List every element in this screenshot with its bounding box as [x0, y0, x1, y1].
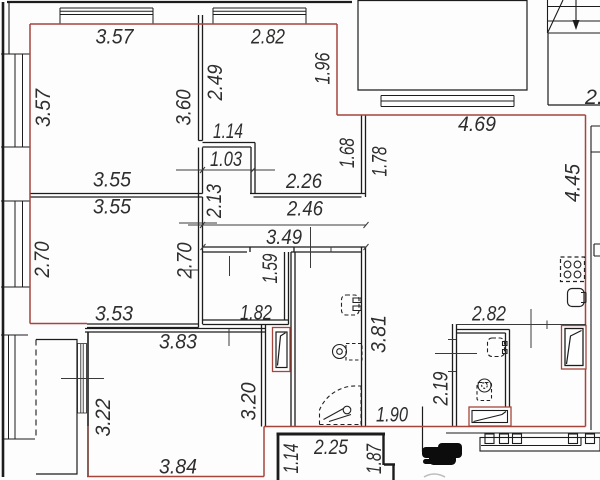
door D3: [562, 326, 587, 370]
door D2: [469, 407, 511, 426]
svg-text:2.19: 2.19: [429, 371, 453, 406]
window left 3: [1, 335, 35, 439]
svg-text:4.45: 4.45: [561, 163, 585, 202]
svg-text:2.13: 2.13: [202, 184, 226, 219]
svg-text:2.26: 2.26: [285, 169, 322, 193]
svg-text:3.60: 3.60: [172, 89, 196, 125]
svg-text:3.57: 3.57: [31, 88, 55, 127]
svg-text:3.55: 3.55: [93, 195, 132, 219]
svg-text:1.59: 1.59: [258, 253, 282, 283]
bathroom2 walls: [453, 324, 510, 427]
hall bottom post: [422, 407, 424, 453]
censor blob: [422, 443, 462, 465]
washbasin bathroom2: [488, 338, 505, 357]
svg-text:1.96: 1.96: [311, 52, 335, 84]
stairs: [548, 0, 600, 33]
wardrobe: [36, 340, 77, 475]
living room left wall: [87, 332, 89, 477]
dimension lines: [61, 167, 586, 379]
svg-text:3.49: 3.49: [266, 225, 302, 249]
fixtures: [320, 257, 587, 425]
svg-text:3.83: 3.83: [159, 330, 197, 354]
stove: [561, 257, 585, 282]
niche wall: [203, 143, 256, 194]
window top B: [213, 8, 306, 24]
svg-text:3.84: 3.84: [159, 455, 197, 479]
stair shaft wall: [548, 33, 600, 105]
window left 1: [1, 54, 30, 147]
kitchen sink: [568, 289, 585, 307]
svg-text:2.46: 2.46: [286, 197, 323, 221]
wall A bedroom1 right: [199, 15, 203, 194]
svg-text:2.70: 2.70: [173, 242, 197, 279]
svg-text:2.82: 2.82: [471, 302, 506, 326]
balcony window: [381, 96, 514, 107]
balcony top: [358, 0, 527, 90]
svg-text:4.69: 4.69: [458, 112, 496, 136]
svg-text:1.82: 1.82: [240, 301, 272, 325]
storage bottom wall: [203, 320, 289, 325]
watermark bits: [424, 474, 445, 477]
svg-text:2.82: 2.82: [250, 25, 285, 49]
svg-text:1.87: 1.87: [362, 443, 386, 474]
living room top wall: [85, 329, 266, 333]
toilet bathroom2: [478, 379, 491, 392]
corridor top wall: [250, 194, 366, 198]
window top A: [60, 8, 153, 24]
stair arrow: [575, 0, 577, 27]
corridor bottom wall: [203, 247, 366, 252]
balcony bottom walls: [277, 433, 280, 480]
svg-text:2.70: 2.70: [30, 241, 54, 278]
window left 2: [1, 201, 30, 287]
svg-text:1.14: 1.14: [279, 443, 303, 473]
stair arrow head: [573, 20, 580, 30]
svg-text:1.03: 1.03: [210, 147, 242, 171]
door D1: [273, 328, 291, 372]
washing machine bathroom1: [333, 345, 347, 359]
neighbor wall right: [591, 126, 600, 430]
storage right wall: [285, 252, 289, 325]
svg-text:3.53: 3.53: [95, 302, 133, 326]
bathroom1 left wall: [291, 252, 295, 427]
svg-text:2.49: 2.49: [203, 64, 227, 101]
svg-text:1.90: 1.90: [376, 403, 408, 427]
divider bedroom1/bedroom2: [30, 194, 203, 198]
living room right wall: [262, 325, 266, 427]
wire: [7, 1, 352, 3]
svg-text:1.78: 1.78: [368, 146, 392, 176]
washbasin bathroom1: [342, 295, 360, 315]
wall bedroom2 right / storage left: [199, 194, 203, 328]
wall x361 upper: [362, 115, 366, 197]
wire: [8, 2, 10, 54]
bedroom2 bottom wall: [87, 324, 199, 328]
svg-text:1.14: 1.14: [213, 119, 243, 143]
svg-text:3.20: 3.20: [237, 382, 261, 420]
wall x361 lower bathroom1 right: [362, 247, 366, 427]
wardrobe dashed edge: [35, 340, 37, 440]
svg-text:2.2: 2.2: [584, 85, 600, 109]
svg-text:2.25: 2.25: [313, 435, 349, 459]
svg-text:3.81: 3.81: [367, 315, 391, 353]
svg-text:3.22: 3.22: [91, 398, 115, 436]
svg-text:3.55: 3.55: [93, 168, 132, 192]
corner bathtub: [320, 386, 362, 425]
wire: [2, 2, 5, 477]
svg-text:3.57: 3.57: [96, 25, 135, 49]
svg-text:1.68: 1.68: [335, 138, 359, 168]
bottom railing: [446, 433, 600, 451]
